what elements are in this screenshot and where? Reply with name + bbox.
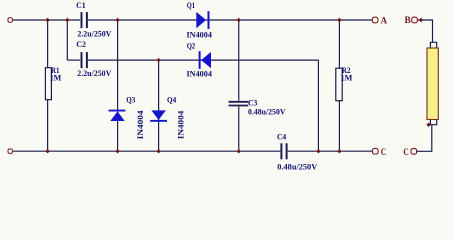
junction bottom rail x=47.6 — [45, 149, 49, 153]
svg-text:Q4: Q4 — [167, 95, 177, 105]
junction bottom rail x=339.4 — [337, 149, 341, 153]
wire top rail right segment — [88, 19, 372, 21]
capacitor C2 — [76, 39, 112, 78]
wire mid rail right segment — [88, 59, 318, 61]
svg-text:C1: C1 — [76, 0, 86, 10]
svg-text:1M: 1M — [341, 73, 353, 83]
svg-text:2.2u/250V: 2.2u/250V — [77, 29, 112, 39]
resistor R2 — [336, 65, 353, 101]
wire Q4 branch — [158, 60, 160, 151]
wire C3 branch lower — [238, 106, 240, 151]
wire R1 branch lower — [47, 100, 49, 152]
diode Q2 — [187, 41, 213, 79]
svg-text:C: C — [381, 147, 386, 157]
junction top rail x=47.6 — [45, 18, 49, 22]
wire C3 branch upper — [238, 20, 240, 101]
wire lamp bottom lead — [417, 125, 432, 152]
wire bottom rail left segment — [13, 150, 280, 152]
terminal A — [372, 15, 387, 25]
svg-text:B: B — [405, 15, 411, 25]
diode Q4 — [150, 95, 185, 140]
wire C2 drop — [66, 20, 68, 60]
svg-text:IN4004: IN4004 — [135, 110, 145, 140]
wire R2 branch upper — [338, 20, 340, 68]
svg-text:Q3: Q3 — [126, 95, 135, 105]
junction top rail x=238.75 — [237, 18, 241, 22]
junction top rail x=339.4 — [337, 18, 341, 22]
junction bottom rail x=238.75 — [237, 149, 241, 153]
junction lamp bottom lead — [426, 123, 430, 127]
svg-text:C: C — [403, 147, 408, 157]
wire top rail left segment — [13, 19, 80, 21]
lamp tube — [427, 48, 438, 120]
svg-text:C4: C4 — [277, 131, 287, 141]
junction top rail x=117.6 — [115, 18, 119, 22]
terminal C lamp — [403, 147, 416, 157]
wire lamp top filament staple — [430, 42, 436, 48]
wire lamp bottom filament staple — [430, 120, 436, 125]
capacitor C3 — [229, 98, 287, 117]
resistor R1 — [45, 65, 61, 100]
wire mid rail left segment — [67, 59, 80, 61]
junction bottom rail x=117.6 — [115, 149, 119, 153]
svg-text:C2: C2 — [76, 39, 86, 49]
svg-text:Q2: Q2 — [187, 41, 196, 51]
svg-text:0.48u/250V: 0.48u/250V — [277, 161, 318, 171]
junction top rail x=67.3 — [65, 18, 69, 22]
capacitor C1 — [76, 0, 112, 39]
terminal C main — [373, 147, 387, 157]
svg-text:IN4004: IN4004 — [187, 29, 213, 39]
svg-text:2.2u/250V: 2.2u/250V — [77, 68, 112, 78]
wire bottom rail right segment — [288, 150, 373, 152]
wire Q3 branch — [117, 20, 119, 151]
svg-text:IN4004: IN4004 — [187, 69, 213, 79]
wire lamp top lead — [418, 20, 433, 42]
wire mid rail descent — [317, 60, 319, 151]
wire R2 branch lower — [338, 101, 340, 152]
capacitor C4 — [277, 131, 318, 171]
svg-text:1M: 1M — [50, 72, 62, 82]
junction mid rail x=158.6 — [156, 58, 160, 62]
wire R1 branch upper — [47, 20, 49, 68]
diode Q1 — [187, 0, 213, 39]
svg-text:IN4004: IN4004 — [176, 110, 186, 139]
svg-text:Q1: Q1 — [187, 0, 195, 10]
svg-text:0.48u/250V: 0.48u/250V — [248, 106, 286, 116]
junction bottom rail x=318.4 — [316, 149, 320, 153]
junction lamp top lead — [419, 18, 423, 22]
svg-text:A: A — [381, 15, 388, 25]
terminal input top — [8, 18, 12, 22]
terminal B — [405, 15, 418, 25]
diode Q3 — [109, 95, 145, 140]
junction bottom rail x=158.6 — [156, 149, 160, 153]
terminal input bottom — [8, 149, 12, 153]
